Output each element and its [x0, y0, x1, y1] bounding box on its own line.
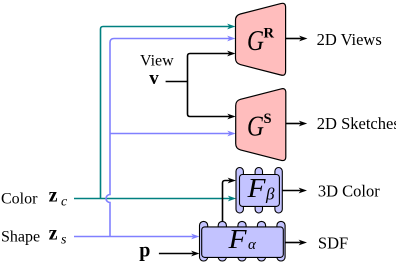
MLP F_alpha chip: [200, 221, 286, 261]
svg-text:S: S: [264, 111, 272, 127]
wire output F_alpha to SDF: [285, 240, 307, 246]
svg-text:p: p: [139, 240, 150, 262]
wire teal vertical branch up to G^R: [101, 24, 236, 199]
svg-text:2D Sketches: 2D Sketches: [317, 114, 396, 133]
svg-text:β: β: [265, 185, 275, 204]
svg-text:View: View: [140, 53, 174, 70]
svg-text:Shape: Shape: [1, 229, 40, 246]
wire output F_beta to 3D Color: [282, 188, 307, 194]
wire purple branch to G^S: [110, 131, 236, 137]
svg-text:3D Color: 3D Color: [318, 182, 380, 201]
svg-text:SDF: SDF: [318, 234, 348, 253]
wire purple vertical with hop over teal, up to G^R: [106, 36, 236, 237]
svg-text:G: G: [247, 25, 264, 57]
wire purple z_s horizontal to F_alpha: [74, 234, 200, 240]
wire teal z_c horizontal to F_beta: [74, 196, 236, 202]
svg-text:G: G: [247, 111, 264, 143]
svg-text:s: s: [61, 233, 67, 248]
svg-text:c: c: [61, 195, 68, 210]
wire black from v splitting to G^R and G^S: [166, 51, 236, 120]
decoder G^S trapezoid: [236, 89, 286, 161]
decoder G^R trapezoid: [236, 3, 286, 75]
wire black p into F_alpha: [159, 251, 200, 257]
svg-text:z: z: [49, 222, 58, 244]
svg-text:v: v: [149, 68, 159, 89]
label z_s: [49, 222, 67, 247]
svg-text:R: R: [264, 26, 275, 42]
svg-text:Color: Color: [1, 191, 38, 208]
wire output G^S to 2D Sketches: [286, 121, 307, 127]
MLP F_beta chip: [236, 168, 282, 214]
label z_c: [49, 184, 68, 209]
svg-text:F: F: [227, 224, 247, 254]
svg-text:α: α: [248, 237, 257, 253]
wire black F_alpha to F_beta: [223, 178, 237, 222]
svg-text:F: F: [246, 173, 266, 203]
svg-text:2D Views: 2D Views: [317, 30, 382, 49]
svg-text:z: z: [49, 184, 58, 206]
wire output G^R to 2D Views: [286, 36, 308, 42]
